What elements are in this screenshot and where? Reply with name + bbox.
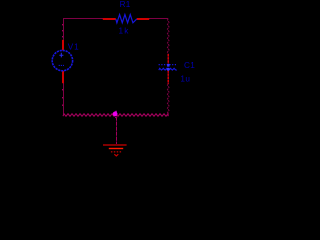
wire: bottom ground net [63, 114, 168, 116]
junction dot: ground node [113, 112, 118, 117]
wire: top net from R1 to top-right corner [149, 18, 168, 20]
wire: right vertical net, C1 to bottom corner [167, 84, 169, 115]
capacitor C1 bottom plate center [167, 68, 170, 71]
resistor R1 zigzag body [116, 15, 137, 23]
capacitor C1 bottom plate (curved) [159, 68, 177, 70]
wire ticks left lower [62, 89, 63, 90]
wire: left vertical net V1 top [63, 18, 65, 40]
voltage source V1 minus sign [59, 64, 64, 66]
ground symbol bar 3 (dashed) [111, 151, 122, 153]
capacitor C1 top plate center tee [167, 64, 169, 67]
voltage source V1 lead top (pin) [62, 40, 64, 51]
ground symbol bar 4 [114, 154, 118, 156]
resistor R1 lead left (pin) [103, 18, 116, 20]
capacitor C1 lead bottom (pin) [167, 70, 169, 84]
capacitor C1 top plate [159, 64, 177, 66]
wire: right vertical net, corner to C1 [167, 19, 169, 54]
wire: stub from ground node to ground symbol [116, 117, 118, 145]
ground symbol bar 2 [109, 148, 123, 149]
wire: left vertical net V1 bottom [63, 83, 65, 116]
wire: top net from V1 to R1 [63, 18, 103, 20]
svg-text:V1: V1 [68, 43, 80, 52]
ground symbol bar 1 [103, 144, 127, 145]
voltage source V1 circle body [52, 50, 72, 70]
capacitor C1 lead top (pin) [167, 54, 169, 84]
resistor R1 lead right (pin) [137, 18, 150, 20]
voltage source V1 plus sign [59, 53, 63, 58]
voltage source V1 lead bottom (pin) [62, 71, 64, 83]
svg-text:C1: C1 [184, 61, 195, 70]
svg-text:1u: 1u [180, 74, 190, 83]
svg-text:R1: R1 [120, 0, 131, 9]
svg-text:1k: 1k [119, 26, 130, 35]
wire ticks left upper [62, 24, 63, 25]
